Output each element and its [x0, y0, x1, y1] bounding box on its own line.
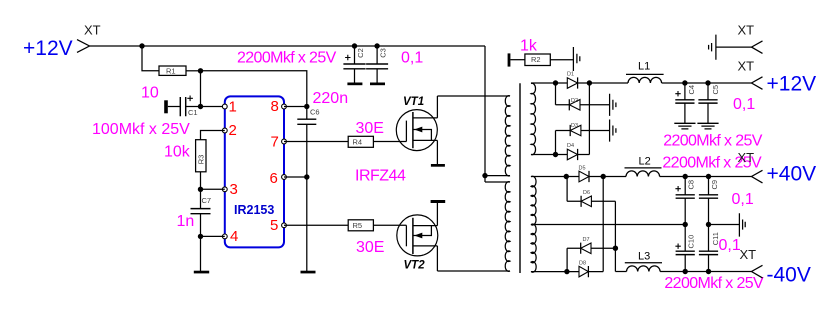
diode D7 [567, 237, 615, 254]
svg-text:+40V: +40V [767, 163, 817, 186]
earth ground (C5) [697, 123, 718, 129]
svg-text:IR2153: IR2153 [234, 203, 274, 217]
wire center tap to primary lower top lead [485, 181, 510, 183]
transformer T1 secondary 1 winding [531, 83, 536, 154]
svg-text:L1: L1 [638, 61, 650, 73]
svg-text:D6: D6 [583, 190, 590, 196]
node junction J2 (+40V rail) [601, 174, 606, 179]
svg-text:XT: XT [84, 23, 101, 38]
node junction L3 input [613, 246, 618, 251]
wire R2 to ground [550, 59, 573, 61]
svg-text:D2: D2 [571, 98, 578, 104]
wire R1 drop [142, 46, 159, 71]
node junction pin3 [198, 187, 203, 192]
node junction C10 bottom [683, 269, 688, 274]
svg-text:D7: D7 [583, 237, 590, 243]
wire D3 node down to sec1 bottom [555, 131, 557, 155]
svg-text:30E: 30E [356, 120, 384, 137]
transformer T1 primary upper winding [505, 96, 510, 176]
resistor R4 [348, 136, 373, 147]
wire C6 to pin6 and ground [306, 124, 308, 271]
svg-text:-40V: -40V [767, 264, 811, 287]
capacitor C7 [191, 196, 212, 214]
earth ground (C4) [674, 123, 695, 129]
node junction rectifier + output [587, 80, 592, 85]
wire secondary1 top lead [531, 82, 567, 84]
capacitor C6 [297, 107, 319, 125]
svg-text:C1: C1 [188, 108, 198, 117]
node junction C1/pin1 [198, 104, 203, 109]
wire pin5 to R5 [284, 224, 348, 226]
inductor L1 [626, 61, 664, 84]
resistor R1 [159, 66, 186, 76]
svg-text:1n: 1n [177, 213, 195, 230]
ground bar (IC left) [194, 271, 209, 274]
resistor R2 [525, 54, 550, 66]
wire R5 to VT2 gate [373, 224, 406, 226]
svg-text:C4: C4 [687, 85, 696, 95]
ground bar (VT1 source) [431, 164, 445, 167]
transformer T1 core [519, 83, 521, 273]
wire +12V rail to transformer center tap [484, 46, 486, 182]
svg-text:6: 6 [270, 170, 278, 187]
svg-text:30E: 30E [356, 239, 384, 256]
node junction rail/R1 [139, 43, 144, 48]
node junction R1 output [198, 68, 203, 73]
diode D4 [567, 143, 589, 160]
svg-text:R2: R2 [531, 55, 541, 64]
wire bar to R2 [510, 59, 525, 61]
connector XT input chevron [77, 40, 90, 53]
svg-text:3: 3 [230, 181, 238, 198]
svg-text:R1: R1 [166, 67, 176, 76]
pin 4 [222, 228, 238, 245]
wire J2 to L2 [603, 176, 626, 178]
svg-text:2200Mkf x 25V: 2200Mkf x 25V [237, 50, 337, 67]
svg-text:C10: C10 [687, 235, 696, 249]
svg-text:2: 2 [229, 122, 237, 139]
svg-text:2200Mkf x 25V: 2200Mkf x 25V [663, 133, 763, 150]
connector XT gnd chevron [752, 41, 763, 54]
node junction pin8/VB [304, 104, 309, 109]
svg-text:D5: D5 [579, 165, 586, 171]
wire L1 to +12V output [662, 82, 752, 84]
diode D6 [567, 190, 615, 207]
wire sec2 top down to D6 [566, 177, 568, 202]
svg-text:5: 5 [270, 217, 278, 234]
pin 5 [270, 217, 286, 234]
wire pin2 to R3 [201, 131, 225, 140]
earth ground (R2) [573, 47, 579, 71]
wire to L1 [589, 82, 628, 84]
svg-text:0,1: 0,1 [733, 96, 755, 113]
earth ground (0V mid) [739, 213, 745, 236]
connector XT -40V chevron [752, 265, 763, 278]
node junction C9 top [706, 174, 711, 179]
transistor VT2 [397, 203, 438, 272]
svg-text:C3: C3 [379, 48, 388, 58]
svg-text:0,1: 0,1 [719, 237, 741, 254]
pin 7 [271, 134, 287, 151]
diode D3 [556, 123, 610, 136]
wire R3 to C7 [200, 172, 202, 209]
earth ground (D3) [610, 120, 616, 142]
node junction pin6 [304, 174, 309, 179]
earth ground (D2) [610, 94, 616, 116]
wire D6 down to L3 node [614, 201, 616, 271]
svg-text:C2: C2 [356, 48, 365, 58]
diode D2 [556, 98, 610, 111]
svg-text:7: 7 [271, 134, 279, 151]
svg-text:VT1: VT1 [403, 96, 424, 108]
wire VCC to VB (pin8) [201, 71, 307, 107]
node junction C11 bottom [706, 269, 711, 274]
wire pin6 stub [284, 176, 307, 178]
svg-text:R5: R5 [353, 221, 363, 230]
svg-text:C8: C8 [687, 180, 696, 190]
wire pin4 stub [201, 235, 225, 237]
svg-text:220n: 220n [313, 90, 349, 107]
capacitor C5 [698, 83, 720, 123]
diode D1 [567, 72, 589, 89]
capacitor C1 [164, 96, 225, 117]
pin 2 [222, 122, 236, 139]
capacitor C4 [675, 83, 696, 123]
wire secondary2 bottom lead [531, 271, 579, 273]
wire pin3 stub [201, 188, 225, 190]
wire VT1 drain to primary top [437, 95, 510, 97]
ground bar (VT2 source) [431, 200, 446, 203]
svg-text:C7: C7 [202, 196, 212, 205]
transformer T1 primary lower winding [505, 182, 510, 272]
inductor L2 [625, 156, 662, 177]
svg-text:L3: L3 [638, 250, 650, 262]
svg-text:1k: 1k [520, 38, 538, 55]
wire secondary1 bottom lead [531, 154, 567, 156]
wire C7 to ground [200, 214, 202, 271]
transformer T1 secondary 2 lower winding [531, 224, 536, 272]
svg-text:C9: C9 [710, 180, 719, 190]
wire mid row to earth [709, 224, 740, 226]
svg-text:XT: XT [740, 247, 757, 262]
svg-text:D4: D4 [567, 143, 574, 149]
svg-text:100Mkf x 25V: 100Mkf x 25V [92, 121, 190, 138]
inductor L3 [625, 250, 662, 271]
pin 1 [222, 98, 236, 115]
svg-text:10k: 10k [164, 144, 191, 161]
svg-text:VT2: VT2 [404, 260, 426, 272]
svg-text:D1: D1 [567, 72, 574, 78]
node junction pin4 [198, 234, 203, 239]
capacitor C9 [699, 177, 719, 225]
diode D5 [579, 165, 604, 182]
wire gnd terminal [716, 46, 752, 48]
wire pin8 stub [284, 106, 307, 108]
node junction C8 top [683, 174, 688, 179]
pin 8 [271, 98, 287, 115]
terminal bar (R2 screen) [508, 53, 511, 66]
capacitor C2 [343, 43, 365, 85]
wire secondary2 top lead [531, 176, 579, 178]
wire R1 to node VCC [186, 70, 201, 72]
earth ground (XT gnd) [709, 35, 716, 60]
node junction sec1 bottom [553, 152, 558, 157]
svg-text:0,1: 0,1 [732, 191, 754, 208]
wire primary upper bottom lead to center tap [485, 175, 510, 177]
wire secondary2 center tap to C8/C10 mid [531, 224, 685, 226]
pin 3 [222, 181, 237, 198]
svg-text:4: 4 [230, 228, 238, 245]
svg-text:L2: L2 [639, 156, 651, 168]
connector XT +40V chevron [752, 170, 763, 183]
wire D8 cathode up to J2 [602, 177, 604, 272]
wire +12V top rail [90, 45, 486, 47]
capacitor C8 [675, 177, 695, 225]
svg-text:0,1: 0,1 [401, 50, 423, 67]
svg-text:10: 10 [141, 85, 159, 102]
svg-text:IRFZ44: IRFZ44 [355, 168, 406, 185]
wire R4 to VT1 gate [373, 141, 406, 143]
svg-text:+12V: +12V [23, 37, 73, 60]
svg-text:XT: XT [738, 150, 755, 165]
node junction sec2 bottom [564, 269, 569, 274]
connector XT +12V out chevron [752, 77, 763, 90]
wire sec1 top down to D2 [555, 83, 557, 105]
svg-text:8: 8 [271, 98, 279, 115]
diode D8 [579, 260, 603, 277]
node junction C11 top [706, 222, 711, 227]
resistor R5 [348, 220, 373, 231]
wire L3 from node [615, 271, 626, 273]
wire L3 to -40V output [660, 271, 751, 273]
svg-text:R4: R4 [353, 137, 363, 146]
wire VCC down to C1/pin1 [200, 71, 202, 107]
svg-text:C5: C5 [711, 85, 720, 95]
wire pin7 to R4 [284, 141, 348, 143]
wire D4 cathode rail up to D1 [588, 83, 590, 155]
node junction center tap [482, 173, 487, 178]
node junction C10 top [683, 222, 688, 227]
resistor R3 [196, 140, 206, 172]
wire D7 node down to sec2 bottom [566, 248, 568, 271]
pin 6 [270, 170, 287, 187]
capacitor C10 [675, 225, 695, 272]
wire L2 to +40V output [660, 176, 752, 178]
transistor VT1 [396, 96, 437, 164]
svg-text:D3: D3 [571, 123, 578, 129]
svg-text:C6: C6 [310, 108, 320, 117]
svg-text:D8: D8 [579, 260, 586, 266]
capacitor C3 [366, 43, 388, 85]
svg-text:R3: R3 [197, 155, 206, 165]
svg-text:2200Mkf x 25V: 2200Mkf x 25V [664, 275, 764, 292]
node junction C4 [682, 80, 687, 85]
svg-text:+12V: +12V [767, 73, 817, 96]
capacitor C11 [699, 225, 720, 272]
svg-text:1: 1 [229, 98, 237, 115]
svg-text:XT: XT [738, 59, 755, 74]
transformer T1 secondary 2 upper winding [531, 176, 536, 225]
node junction sec1 top [553, 80, 558, 85]
svg-text:XT: XT [738, 23, 755, 38]
node junction sec2 top [564, 174, 569, 179]
wire primary bottom to VT2 drain [437, 270, 510, 272]
ground bar (VS net) [301, 271, 316, 274]
node junction C5 [705, 80, 710, 85]
IC U1 IR2153 body [225, 96, 284, 247]
